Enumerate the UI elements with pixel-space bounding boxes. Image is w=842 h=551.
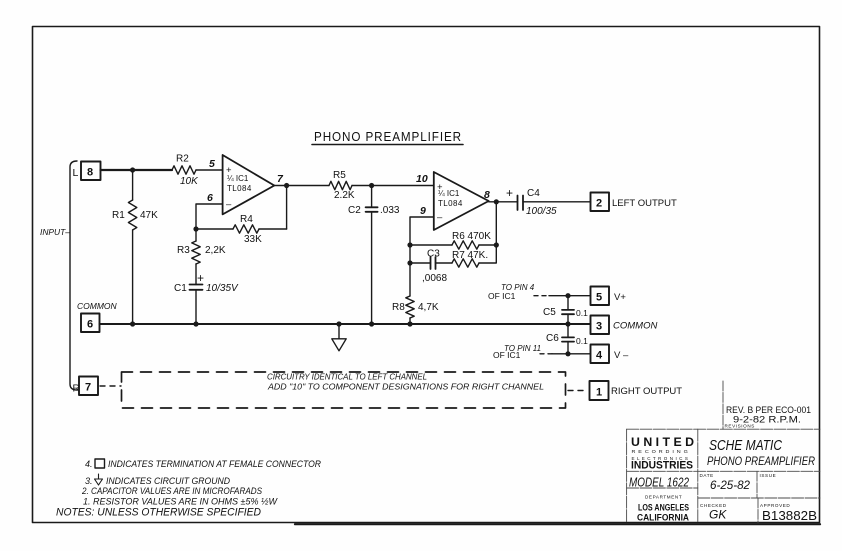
svg-text:R2: R2 [176,154,189,165]
svg-text:1. RESISTOR VALUES ARE IN O: 1. RESISTOR VALUES ARE IN OHMS ±5% ½W [83,497,278,507]
schematic title [707,438,815,468]
svg-text:V+: V+ [614,292,626,303]
right channel dashed box [122,372,566,408]
svg-text:8: 8 [87,167,93,179]
svg-text:4: 4 [596,350,603,362]
revision box [722,381,724,429]
svg-text:R4: R4 [240,214,253,225]
svg-text:10K: 10K [180,176,199,187]
svg-text:C1: C1 [174,283,187,294]
capacitor C4 [506,186,557,217]
svg-text:R3: R3 [177,245,190,256]
resistor R3 [177,229,226,285]
svg-text:3.: 3. [85,476,93,486]
svg-text:1: 1 [596,387,602,399]
svg-text:–: – [437,212,443,223]
svg-text:PHONO PREAMPLIFIER: PHONO PREAMPLIFIER [707,454,815,468]
svg-text:COMMON: COMMON [77,301,118,311]
resistor R4 [196,214,287,245]
svg-text:¼ IC1: ¼ IC1 [438,189,460,198]
svg-text:4.: 4. [85,459,93,469]
svg-text:OF IC1: OF IC1 [488,291,516,301]
connector J1 [590,381,609,400]
svg-text:R7 47K.: R7 47K. [452,250,488,261]
resistor R8 [392,296,439,324]
svg-text:INDUSTRIES: INDUSTRIES [631,460,693,472]
node V+ [565,293,570,298]
svg-text:REVISIONS: REVISIONS [725,424,755,429]
svg-text:47K: 47K [140,210,158,221]
svg-text:10: 10 [416,173,428,185]
svg-text:2: 2 [596,198,602,210]
svg-text:–: – [226,199,232,210]
company name [631,437,694,472]
svg-text:ISSUE: ISSUE [760,473,777,478]
capacitor C2 [348,186,400,325]
svg-text:R E C O R D I N G: R E C O R D I N G [632,449,689,454]
svg-text:0.1: 0.1 [576,308,588,318]
svg-text:6: 6 [87,319,93,331]
svg-text:+: + [197,271,204,285]
svg-text:C5: C5 [543,307,556,318]
wire R5 to pin10 [352,185,434,187]
svg-text:SCHE MATIC: SCHE MATIC [709,438,782,454]
op-amp U1A [223,155,275,214]
resistor R7 [452,245,496,267]
wire V+ [549,295,591,297]
svg-text:10/35V: 10/35V [206,283,239,294]
wire common rail [100,323,591,325]
svg-text:MODEL 1622: MODEL 1622 [629,476,689,490]
wire C4 to box2 [523,201,591,203]
label TO PIN 11 OF IC1 (V-) [493,344,541,360]
svg-text:COMMON: COMMON [613,321,657,332]
wire box8 to R2 [101,169,173,171]
svg-text:¼ IC1: ¼ IC1 [227,174,249,183]
svg-text:,0068: ,0068 [422,273,447,284]
svg-text:R1: R1 [112,210,125,221]
ground [332,324,346,351]
svg-text:6: 6 [207,192,213,204]
svg-text:INDICATES CIRCUIT GROUND: INDICATES CIRCUIT GROUND [106,476,230,486]
input bracket [70,161,77,390]
wire R2 to pin5 [196,169,223,171]
title PHONO PREAMPLIFIER [312,129,463,145]
svg-text:C3: C3 [427,249,440,260]
resistor R1 [112,170,158,324]
label TO PIN 4 OF IC1 (V+) [488,283,535,301]
svg-text:5: 5 [596,292,602,304]
svg-text:33K: 33K [244,234,262,245]
svg-text:+: + [506,186,513,200]
node V- [565,351,570,356]
svg-text:R5: R5 [333,170,346,181]
svg-text:DEPARTMENT: DEPARTMENT [645,495,682,500]
wire op1 out to R5 [274,185,329,187]
wire to box1 dashed [568,390,588,392]
node fb2c [494,242,499,247]
svg-text:C6: C6 [546,333,559,344]
svg-text:OF IC1: OF IC1 [493,350,521,360]
node C2-common [369,321,374,326]
wire V- dashed [540,353,552,355]
capacitor C6 [546,324,588,354]
node fb2a [407,242,412,247]
wire R4 up to output [286,186,288,230]
svg-text:APPROVED: APPROVED [760,503,790,508]
svg-text:V –: V – [614,350,629,361]
wire op2 out to C4 [489,201,518,203]
svg-text:INDICATES TERMINATION AT FEMA: INDICATES TERMINATION AT FEMALE CONNECTO… [108,459,321,469]
svg-text:U N I T E D: U N I T E D [631,437,694,449]
node fb2b [407,260,412,265]
svg-text:CALIFORNIA: CALIFORNIA [637,513,689,524]
svg-text:L: L [73,167,79,179]
svg-text:R8: R8 [392,302,405,313]
capacitor C3 [410,249,452,285]
wire box7 dashed [100,385,121,387]
node fb1 [193,226,198,231]
connector J2 [591,193,610,212]
svg-text:.033: .033 [380,205,400,216]
node C1-common [193,321,198,326]
wire pin6 to feedback node [196,204,223,229]
resistor R2 [172,154,199,188]
svg-text:2,2K: 2,2K [205,245,226,256]
svg-text:9: 9 [420,205,426,217]
op-amp U1B [434,172,489,230]
node out1 [284,183,289,188]
svg-text:C2: C2 [348,205,361,216]
node out2 [494,199,499,204]
connector J5 [591,287,610,306]
title block outline [627,428,820,430]
connector J4 [591,345,610,364]
capacitor C5 [543,296,588,324]
connector J3 [591,316,610,335]
svg-text:0.1: 0.1 [576,336,588,346]
svg-text:C4: C4 [527,188,540,199]
svg-text:TL084: TL084 [227,184,252,193]
svg-text:2.2K: 2.2K [334,190,355,201]
node R1-common [130,321,135,326]
title block [627,381,820,524]
svg-text:CIRCUITRY IDENTICAL TO LEFT: CIRCUITRY IDENTICAL TO LEFT CHANNEL [267,373,427,382]
svg-text:GK: GK [709,508,727,522]
connector J7 [79,377,98,396]
svg-text:3: 3 [596,321,602,333]
connector J6 [81,314,100,333]
svg-text:LEFT OUTPUT: LEFT OUTPUT [612,198,677,209]
svg-text:2. CAPACITOR VALUES ARE IN: 2. CAPACITOR VALUES ARE IN MICROFARADS [81,486,262,496]
node C5C6-common [565,321,570,326]
node gnd-common [336,321,341,326]
notes block [56,459,321,519]
svg-text:ADD "10" TO COMPONENT DESIGN: ADD "10" TO COMPONENT DESIGNATIONS FOR R… [267,383,544,392]
svg-text:6-25-82: 6-25-82 [710,478,750,492]
svg-text:100/35: 100/35 [526,206,557,217]
wire out2 to fb [495,202,497,245]
svg-text:4,7K: 4,7K [418,302,439,313]
wire V- [552,353,591,355]
svg-text:PHONO PREAMPLIFIER: PHONO PREAMPLIFIER [314,129,462,144]
wire V+ dashed [534,295,549,297]
resistor R6 [410,231,496,249]
svg-text:8: 8 [484,189,490,201]
svg-text:B13882B: B13882B [762,509,817,523]
svg-text:5: 5 [209,158,215,170]
svg-text:R6 470K: R6 470K [452,231,491,242]
svg-text:NOTES: UNLESS OTHERWISE SPEC: NOTES: UNLESS OTHERWISE SPECIFIED [56,507,261,519]
connector J8 [81,162,101,181]
node input junction [130,167,135,172]
node C2 top [369,183,374,188]
node R8-common [407,321,412,326]
wire pin9 to fb [410,217,434,296]
svg-text:INPUT–: INPUT– [40,227,70,237]
resistor R5 [329,170,355,201]
svg-text:RIGHT OUTPUT: RIGHT OUTPUT [611,386,682,397]
svg-text:TL084: TL084 [438,199,463,208]
capacitor C1 [174,271,239,324]
svg-text:7: 7 [85,382,91,394]
